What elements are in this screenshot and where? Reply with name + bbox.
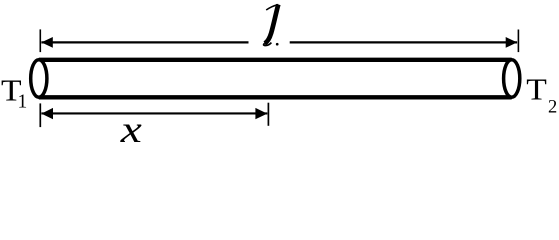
svg-text:T: T <box>526 72 547 106</box>
node: right extension tick of l dimension <box>517 30 519 53</box>
node: right arrowhead of x dimension <box>255 108 267 119</box>
node: right extension tick of x dimension <box>267 103 269 126</box>
wire: dimension line for x <box>41 112 267 114</box>
wire: rod top edge <box>39 58 512 62</box>
wire: rod bottom edge <box>39 95 512 99</box>
node: left extension tick of x dimension <box>39 103 41 127</box>
label l (length of rod) <box>264 5 279 46</box>
svg-text:1: 1 <box>18 91 28 112</box>
node: right end cap of rod <box>504 60 520 98</box>
node: left arrowhead of x dimension <box>41 108 53 119</box>
label T2 (temperature at right end) <box>526 72 547 106</box>
label x (distance along rod) <box>120 109 142 151</box>
label T1 (temperature at left end) <box>1 73 22 107</box>
svg-text:2: 2 <box>548 98 557 118</box>
wire: dimension line for l, right segment <box>290 41 517 43</box>
node: left end cap of rod <box>31 60 47 98</box>
node: left arrowhead of l dimension <box>41 37 52 48</box>
svg-text:x: x <box>120 109 142 146</box>
wire: dimension line for l, left segment <box>41 41 248 43</box>
node: right arrowhead of l dimension <box>506 37 517 48</box>
node: left extension tick of l dimension <box>39 29 41 52</box>
